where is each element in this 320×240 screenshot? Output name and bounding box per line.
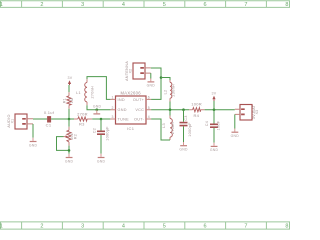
svg-text:GND: GND bbox=[147, 84, 156, 88]
connector X1 labels bbox=[7, 114, 14, 127]
capacitor C3 bbox=[180, 110, 193, 142]
wire antenna node to L2 top bbox=[161, 78, 170, 81]
pin stubs X1 bbox=[27, 119, 33, 124]
svg-text:X1: X1 bbox=[11, 119, 15, 124]
svg-text:230nH: 230nH bbox=[172, 84, 176, 97]
svg-text:GND: GND bbox=[179, 148, 188, 152]
svg-text:C3: C3 bbox=[184, 115, 188, 120]
wire L2 bottom to VCC rail bbox=[169, 102, 171, 110]
ground below C3 bbox=[179, 142, 188, 152]
svg-text:TUNE: TUNE bbox=[118, 118, 130, 122]
svg-text:2: 2 bbox=[40, 2, 43, 8]
wire R4 to 3V node bbox=[205, 109, 235, 111]
svg-text:1M: 1M bbox=[70, 98, 74, 104]
wire R2 bottom bbox=[68, 146, 70, 154]
connector X1 audio input bbox=[15, 114, 27, 129]
wire 3V arrow to rail bbox=[213, 101, 215, 110]
svg-text:7: 7 bbox=[244, 223, 247, 229]
svg-text:100R: 100R bbox=[191, 102, 202, 107]
node GND tap junction bbox=[96, 108, 99, 111]
svg-text:0.1uf: 0.1uf bbox=[44, 110, 55, 115]
svg-text:IND: IND bbox=[118, 98, 125, 102]
svg-text:GND: GND bbox=[231, 134, 240, 138]
supply 3V left bbox=[68, 76, 73, 85]
svg-text:1000pF: 1000pF bbox=[105, 126, 109, 141]
wire antenna to OUT+ bbox=[151, 68, 161, 99]
wire 3V to R1 bbox=[68, 85, 70, 92]
svg-text:C1: C1 bbox=[46, 123, 52, 128]
wire C1 to node A bbox=[51, 118, 74, 120]
connector X3 battery bbox=[240, 105, 252, 121]
node A junction bbox=[68, 118, 71, 121]
inductor L3 bbox=[162, 110, 175, 140]
node B junction bbox=[100, 118, 103, 121]
svg-text:GND: GND bbox=[97, 159, 106, 163]
svg-text:6: 6 bbox=[148, 96, 150, 100]
svg-text:8: 8 bbox=[285, 223, 288, 229]
resistor R3 bbox=[74, 111, 92, 126]
svg-text:GND: GND bbox=[210, 148, 219, 152]
supply 3V right bbox=[212, 91, 217, 101]
node 3V junction bbox=[213, 108, 216, 111]
wire R3 to TUNE node bbox=[92, 118, 110, 120]
pin stubs X2 bbox=[145, 68, 151, 73]
svg-text:R4: R4 bbox=[193, 113, 199, 118]
svg-text:6: 6 bbox=[204, 2, 207, 8]
svg-text:OUT+: OUT+ bbox=[133, 98, 145, 102]
inductor L1 bbox=[76, 79, 94, 105]
svg-text:6: 6 bbox=[204, 223, 207, 229]
wire OUT- pin4 to L3 bottom bbox=[151, 119, 170, 140]
svg-text:4: 4 bbox=[122, 2, 125, 8]
svg-text:R1: R1 bbox=[63, 98, 67, 103]
resistor R4 bbox=[189, 102, 204, 118]
svg-text:5: 5 bbox=[163, 223, 166, 229]
svg-text:5: 5 bbox=[163, 2, 166, 8]
svg-text:X2: X2 bbox=[129, 69, 133, 74]
ground below X3 bbox=[231, 129, 240, 139]
inductor L2 bbox=[164, 80, 176, 102]
svg-text:C2: C2 bbox=[92, 128, 96, 133]
svg-text:3: 3 bbox=[112, 115, 114, 119]
wire antenna bottom pin to ground bbox=[150, 73, 152, 78]
svg-text:R3: R3 bbox=[79, 122, 85, 127]
svg-text:GND: GND bbox=[65, 159, 74, 163]
svg-text:4: 4 bbox=[122, 223, 125, 229]
IC1 pin names bbox=[118, 98, 145, 122]
svg-text:GND: GND bbox=[93, 104, 102, 108]
node antenna junction bbox=[160, 76, 163, 79]
wire audio bottom pin down to ground bbox=[32, 124, 34, 138]
connector X2 labels bbox=[125, 61, 132, 81]
svg-text:3V: 3V bbox=[68, 76, 73, 80]
node L2/L3 junction bbox=[169, 108, 172, 111]
node junction R2 bottom bbox=[68, 149, 71, 152]
ground below X1 bbox=[29, 138, 38, 148]
svg-text:8: 8 bbox=[285, 2, 288, 8]
connector X3 labels bbox=[252, 104, 259, 119]
svg-text:1000pF: 1000pF bbox=[188, 122, 192, 137]
svg-text:L3: L3 bbox=[162, 123, 166, 128]
pin stubs X3 bbox=[235, 109, 240, 114]
ground below C2 bbox=[97, 154, 106, 164]
resistor R1 bbox=[63, 92, 75, 109]
svg-text:3: 3 bbox=[81, 223, 84, 229]
capacitor C2 bbox=[92, 119, 109, 154]
wire battery bottom pin to ground bbox=[234, 114, 236, 128]
svg-text:5: 5 bbox=[148, 106, 150, 110]
svg-text:C4: C4 bbox=[205, 121, 209, 126]
wire R1 bottom to node A bbox=[68, 109, 70, 119]
svg-text:L1: L1 bbox=[76, 91, 81, 95]
wire audio top pin to C1 bbox=[33, 118, 47, 120]
ground below R2 bbox=[65, 154, 74, 164]
ground tap near IC1 pin2 bbox=[93, 104, 102, 114]
svg-text:7: 7 bbox=[244, 2, 247, 8]
svg-text:IC1: IC1 bbox=[127, 126, 135, 131]
svg-text:270R: 270R bbox=[77, 111, 88, 116]
wire wiper of R2 to bottom of R2 bbox=[57, 137, 70, 151]
svg-text:2: 2 bbox=[40, 223, 43, 229]
capacitor C4 bbox=[205, 110, 221, 143]
svg-text:3V: 3V bbox=[212, 91, 217, 95]
connector X2 antenna bbox=[133, 63, 145, 79]
svg-text:GND: GND bbox=[118, 108, 127, 112]
svg-text:MAX2606: MAX2606 bbox=[121, 90, 142, 95]
wire IND pin1 net to L1 bbox=[87, 77, 110, 100]
wire VCC rail pin5 to R4 bbox=[151, 109, 189, 111]
ground below X2 bbox=[147, 79, 156, 88]
svg-text:X3: X3 bbox=[255, 110, 259, 115]
svg-text:R2: R2 bbox=[74, 134, 78, 139]
svg-text:3: 3 bbox=[81, 2, 84, 8]
svg-text:270nH: 270nH bbox=[171, 122, 175, 135]
svg-text:L2: L2 bbox=[164, 90, 168, 95]
ground below C4 bbox=[210, 143, 219, 153]
svg-text:1: 1 bbox=[112, 96, 114, 100]
capacitor C1 bbox=[47, 116, 51, 122]
IC1 pin stubs bbox=[110, 99, 151, 119]
svg-text:1: 1 bbox=[0, 2, 3, 8]
svg-text:GND: GND bbox=[29, 143, 38, 147]
wire L1 bottom to GND pin2 net bbox=[87, 105, 110, 110]
svg-text:1: 1 bbox=[0, 223, 3, 229]
IC1 pin numbers bbox=[112, 96, 150, 120]
node C3 junction bbox=[182, 108, 185, 111]
svg-text:VCC: VCC bbox=[135, 108, 144, 112]
IC IC1 MAX2606 bbox=[116, 90, 147, 131]
svg-text:10uF: 10uF bbox=[217, 120, 221, 130]
svg-text:OUT-: OUT- bbox=[134, 118, 145, 122]
svg-text:270nH: 270nH bbox=[91, 86, 95, 99]
potentiometer R2 bbox=[64, 119, 78, 146]
svg-text:2: 2 bbox=[112, 106, 114, 110]
svg-text:4: 4 bbox=[148, 115, 150, 119]
